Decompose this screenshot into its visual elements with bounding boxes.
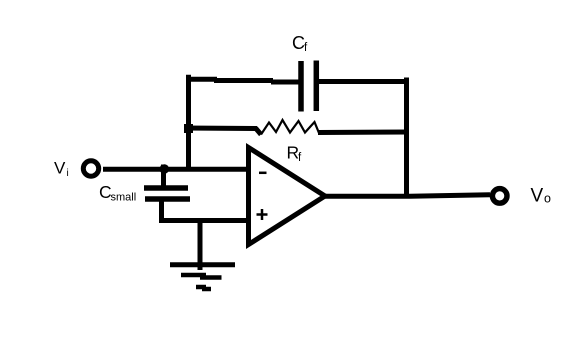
wire right vertical xyxy=(404,78,409,197)
svg-text:f: f xyxy=(298,152,302,164)
op-amp minus pin label xyxy=(259,172,267,175)
svg-text:V: V xyxy=(531,185,544,206)
wire output xyxy=(323,195,490,197)
op-amp plus pin label xyxy=(257,209,268,220)
ground xyxy=(170,221,235,290)
label Vo xyxy=(531,185,552,206)
wire feedback left vertical xyxy=(186,75,191,170)
capacitor Csmall xyxy=(144,188,190,221)
op-amp U1 xyxy=(249,148,326,245)
node feedback junction xyxy=(184,124,193,133)
label Rf xyxy=(287,143,303,165)
svg-text:small: small xyxy=(111,192,137,204)
label Csmall xyxy=(99,182,136,204)
label Cf xyxy=(292,33,308,54)
wire top left to Cf xyxy=(186,79,299,82)
wire resistor left xyxy=(184,126,257,132)
capacitor Cf xyxy=(301,61,316,112)
input terminal Vi xyxy=(83,161,98,176)
label Vi xyxy=(54,159,69,180)
wire input to inverting input xyxy=(103,167,248,172)
svg-text:o: o xyxy=(544,192,551,206)
wire top right from Cf xyxy=(319,79,409,84)
wire to non-inverting input xyxy=(159,218,248,223)
node input junction xyxy=(160,164,170,188)
svg-text:i: i xyxy=(67,168,69,179)
wire resistor right xyxy=(318,130,409,136)
svg-text:V: V xyxy=(54,159,66,178)
svg-text:f: f xyxy=(304,42,308,54)
resistor Rf xyxy=(256,120,320,135)
output terminal Vo xyxy=(492,189,507,204)
